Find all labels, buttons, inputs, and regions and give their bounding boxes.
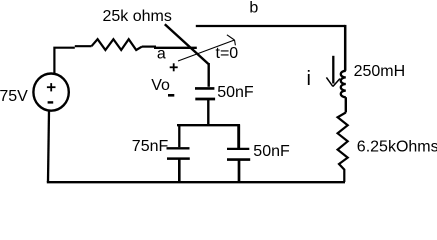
switch blade diagonal	[165, 24, 209, 64]
voltage source V1 circle	[33, 74, 68, 111]
bus wire between capacitors	[177, 124, 240, 126]
capacitor C1 50nF plates	[195, 87, 214, 90]
svg-text:250mH: 250mH	[354, 63, 406, 80]
capacitor C3 bottom wire	[238, 160, 241, 182]
bottom wire	[47, 181, 345, 183]
svg-text:Vo: Vo	[151, 77, 170, 94]
svg-text:a: a	[157, 45, 166, 62]
wire switch to capacitor C1	[207, 63, 209, 87]
top wire node b	[196, 25, 345, 27]
capacitor C3 50nF plates	[227, 148, 249, 150]
wire source bottom stub	[48, 111, 49, 183]
svg-text:50nF: 50nF	[253, 143, 290, 160]
wire to resistor R1	[75, 45, 92, 47]
wire L1 to R2	[345, 97, 347, 112]
switch t=0 arrow	[178, 35, 235, 61]
wire source top stub	[54, 48, 74, 75]
svg-text:25k ohms: 25k ohms	[103, 8, 172, 25]
voltage source plus sign	[47, 83, 56, 91]
svg-text:50nF: 50nF	[217, 84, 254, 101]
resistor R1 zigzag	[92, 39, 143, 50]
wire to node a	[154, 47, 197, 49]
wire C1 to bus	[207, 99, 209, 126]
svg-text:b: b	[249, 0, 258, 16]
capacitor C3 50nF branch top wire	[237, 125, 240, 149]
svg-text:t=0: t=0	[216, 45, 239, 62]
resistor R2 zigzag	[338, 113, 348, 183]
voltage source minus sign	[48, 101, 54, 103]
svg-text:75V: 75V	[0, 88, 28, 105]
Vo minus sign	[168, 94, 174, 97]
wire resistor right lead	[142, 45, 156, 47]
capacitor C2 bottom wire	[178, 160, 181, 182]
Vo plus sign	[170, 63, 178, 71]
capacitor C2 75nF branch top wire	[178, 125, 180, 148]
inductor L1 250mH coil	[341, 71, 346, 97]
svg-text:75nF: 75nF	[132, 138, 169, 155]
capacitor C2 75nF plates	[167, 147, 190, 149]
svg-text:6.25kOhms: 6.25kOhms	[357, 138, 437, 155]
svg-text:i: i	[307, 68, 311, 90]
current arrow i	[326, 56, 340, 87]
wire right branch top	[344, 25, 347, 71]
